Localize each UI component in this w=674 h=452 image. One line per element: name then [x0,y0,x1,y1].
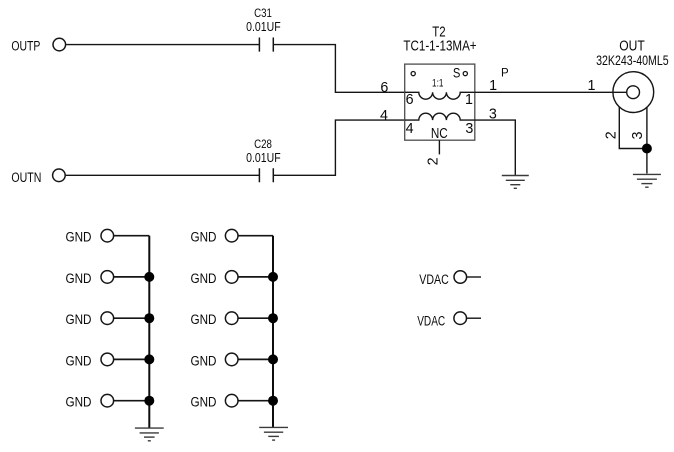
port VDAC 2 [417,312,466,330]
port GND 6 [191,229,239,245]
wire C31 to T2 pin6 [273,45,404,93]
port GND 9 [191,353,239,369]
port GND 7 [191,271,239,287]
svg-text:VDAC: VDAC [417,314,445,330]
svg-text:GND: GND [191,271,217,287]
svg-text:GND: GND [66,230,92,246]
svg-text:GND: GND [66,312,92,328]
port OUTN [11,169,65,186]
port VDAC 1 [419,271,466,289]
ground (bus 2) [259,427,288,440]
GND bus 2 [272,236,274,428]
transformer T2 body [403,25,476,141]
junction bus2-row4 [268,354,278,364]
junction bus2-row5 [268,396,278,406]
svg-text:GND: GND [191,353,217,369]
svg-text:GND: GND [66,395,92,411]
wire [238,276,273,278]
connector pin 3 lead [646,107,648,173]
svg-text:6: 6 [380,80,388,96]
wire [238,235,273,237]
svg-text:3: 3 [630,132,646,140]
svg-text:1: 1 [588,78,596,94]
svg-text:TC1-1-13MA+: TC1-1-13MA+ [403,38,476,54]
svg-text:3: 3 [465,121,473,137]
wire VDAC 1 stub [467,276,481,278]
svg-text:32K243-40ML5: 32K243-40ML5 [596,53,669,68]
svg-text:GND: GND [66,353,92,369]
svg-text:6: 6 [406,92,414,108]
ground (T2 pin3) [502,176,529,189]
port GND 8 [191,312,239,328]
svg-text:1: 1 [465,92,473,108]
svg-text:GND: GND [66,271,92,287]
svg-text:GND: GND [191,230,217,246]
connector pin 2 lead [619,107,647,149]
svg-text:OUTN: OUTN [11,170,41,186]
capacitor C31 [246,6,281,52]
svg-text:4: 4 [406,121,414,137]
pin 2 stub [438,140,440,154]
wire OUTN to C28 [66,174,260,176]
svg-text:OUTP: OUTP [11,38,40,54]
port GND 10 [191,394,239,410]
GND bus 1 [148,236,150,428]
svg-text:OUT: OUT [619,38,645,54]
svg-text:C31: C31 [254,6,272,20]
wire [114,358,149,360]
svg-text:VDAC: VDAC [419,272,449,288]
junction bus1-row5 [144,396,154,406]
ground (bus 1) [135,428,164,441]
port GND 5 [66,394,114,410]
junction connector pins 2-3 [642,144,652,154]
svg-text:GND: GND [191,312,217,328]
wire [114,400,149,402]
port GND 1 [66,229,114,245]
wire [238,317,273,319]
wire [114,317,149,319]
capacitor C28 [246,137,281,183]
port GND 2 [66,271,114,287]
primary winding [405,92,475,99]
port OUTP [11,38,65,54]
wire [238,358,273,360]
junction bus2-row2 [268,272,278,282]
wire VDAC 2 stub [467,317,481,319]
wire [238,400,273,402]
svg-text:2: 2 [426,157,442,165]
port GND 4 [66,353,114,369]
ground (connector) [633,174,661,187]
polarity dot left [411,72,415,76]
wire C28 to T2 pin4 [273,120,404,175]
junction bus1-row4 [144,354,154,364]
junction bus1-row2 [144,272,154,282]
svg-text:2: 2 [604,131,620,139]
secondary winding [405,113,475,120]
wire T2 pin3 to ground [475,120,516,175]
svg-text:0.01UF: 0.01UF [246,151,281,165]
svg-text:0.01UF: 0.01UF [246,20,281,34]
svg-text:S: S [453,66,461,81]
svg-text:P: P [501,67,509,79]
svg-text:GND: GND [191,395,217,411]
wire OUTP to C31 [66,44,259,46]
junction bus1-row3 [144,313,154,323]
wire [114,235,149,237]
wire [114,276,149,278]
svg-text:C28: C28 [254,137,272,151]
wire T2 pin1 to OUT connector [475,91,627,93]
junction bus2-row3 [268,313,278,323]
connector OUT [596,38,669,112]
svg-text:NC: NC [431,126,448,142]
svg-text:4: 4 [380,108,388,124]
polarity dot right [463,72,467,76]
port GND 3 [66,312,114,328]
svg-text:1:1: 1:1 [432,78,443,90]
